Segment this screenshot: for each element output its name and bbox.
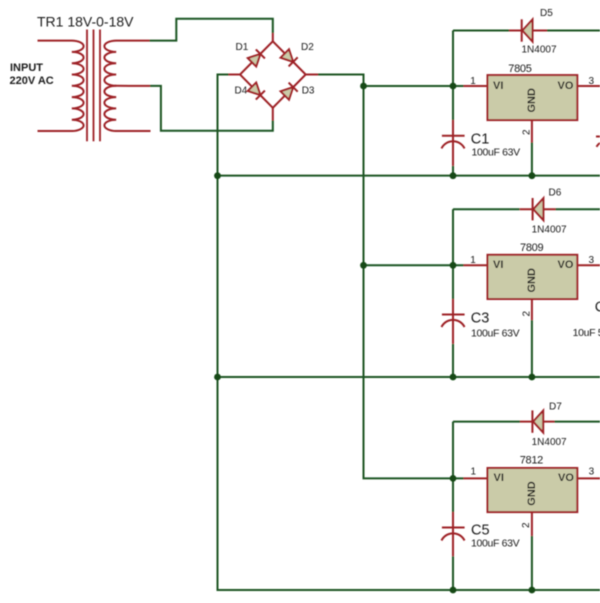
svg-text:10uF 50V: 10uF 50V: [573, 327, 600, 339]
svg-text:3: 3: [589, 255, 595, 266]
svg-text:D7: D7: [549, 402, 562, 413]
svg-text:INPUT: INPUT: [10, 62, 43, 74]
svg-text:C1: C1: [471, 132, 490, 148]
svg-text:C: C: [595, 300, 600, 316]
svg-text:D4: D4: [235, 86, 248, 97]
svg-text:TR1 18V-0-18V: TR1 18V-0-18V: [37, 13, 134, 29]
svg-text:1: 1: [470, 76, 476, 87]
svg-text:100uF 63V: 100uF 63V: [471, 328, 520, 340]
svg-text:D3: D3: [302, 86, 315, 97]
svg-text:1N4007: 1N4007: [532, 225, 567, 236]
svg-text:100uF 63V: 100uF 63V: [471, 538, 520, 550]
svg-text:1: 1: [471, 467, 477, 478]
svg-text:100uF 63V: 100uF 63V: [472, 147, 521, 159]
svg-text:7812: 7812: [520, 455, 543, 467]
svg-text:C3: C3: [471, 311, 490, 327]
svg-text:3: 3: [589, 76, 595, 87]
svg-text:7809: 7809: [520, 242, 543, 254]
svg-text:GND: GND: [526, 268, 538, 293]
svg-text:GND: GND: [526, 481, 538, 506]
svg-text:3: 3: [589, 467, 595, 478]
svg-text:2: 2: [522, 129, 533, 135]
svg-text:C5: C5: [471, 523, 490, 539]
svg-text:VO: VO: [558, 259, 574, 271]
svg-text:1N4007: 1N4007: [532, 437, 567, 448]
svg-text:D5: D5: [540, 8, 553, 19]
svg-text:GND: GND: [526, 88, 538, 113]
svg-text:2: 2: [522, 311, 533, 317]
svg-text:VO: VO: [558, 80, 574, 92]
svg-text:2: 2: [521, 522, 532, 528]
svg-text:D6: D6: [549, 188, 562, 199]
svg-text:D1: D1: [236, 42, 249, 53]
svg-text:220V AC: 220V AC: [10, 75, 54, 87]
svg-text:VI: VI: [493, 259, 503, 271]
svg-text:1: 1: [470, 255, 476, 266]
svg-text:VI: VI: [493, 80, 503, 92]
svg-text:VI: VI: [494, 472, 504, 484]
svg-text:1N4007: 1N4007: [522, 45, 557, 56]
svg-text:VO: VO: [558, 472, 574, 484]
svg-text:7805: 7805: [508, 63, 531, 75]
svg-text:D2: D2: [301, 42, 314, 53]
